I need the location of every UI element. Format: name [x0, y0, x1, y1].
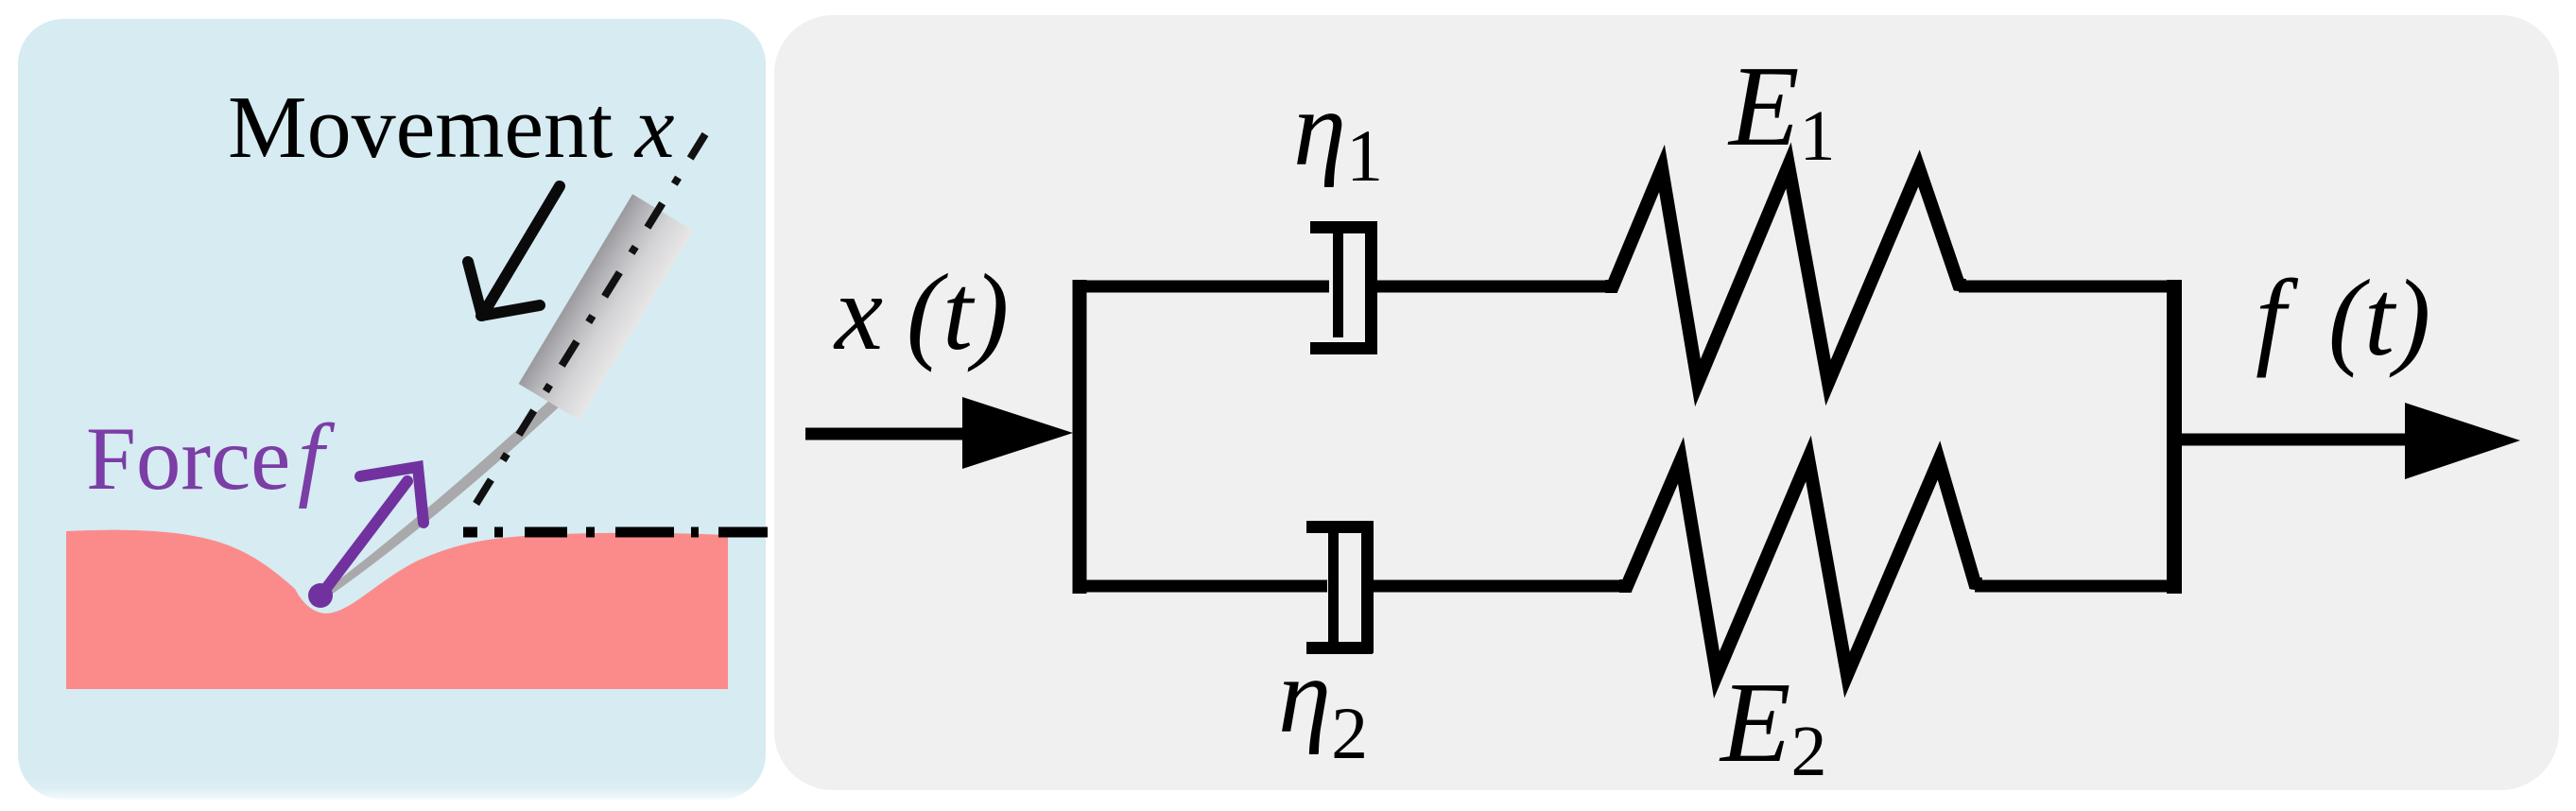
svg-text:Movement x: Movement x — [228, 78, 675, 177]
svg-text:E2: E2 — [1719, 659, 1827, 791]
svg-text:f: f — [298, 405, 336, 509]
svg-text:Force: Force — [86, 408, 290, 509]
svg-text:η1: η1 — [1293, 70, 1383, 197]
svg-text:x (t): x (t) — [833, 252, 1009, 372]
svg-text:E1: E1 — [1727, 43, 1836, 176]
svg-text:η2: η2 — [1278, 637, 1368, 774]
svg-text:f (t): f (t) — [2256, 258, 2430, 378]
